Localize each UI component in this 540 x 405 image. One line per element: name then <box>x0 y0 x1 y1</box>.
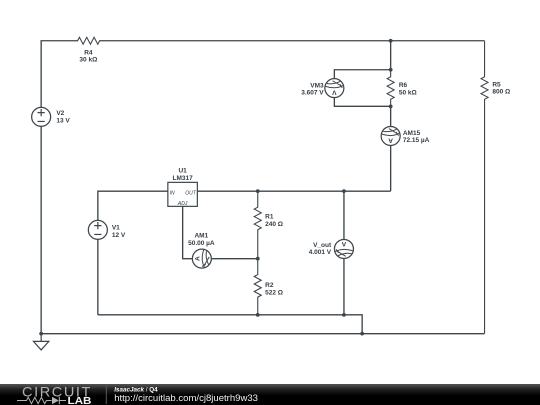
svg-text:13 V: 13 V <box>56 118 70 125</box>
svg-text:30 kΩ: 30 kΩ <box>79 57 97 64</box>
node: junction R2 bottom / bottom rail 1 <box>256 313 260 317</box>
op-amp U1 LM317 regulator box <box>168 182 198 206</box>
resistor R2 522 Ohm <box>254 259 261 315</box>
svg-text:IN: IN <box>170 191 175 197</box>
wire: IN pin to V1 top <box>98 191 168 220</box>
ammeter AM1 50.00 uA <box>192 249 211 268</box>
node: junction VM3 bottom / R6 bottom <box>389 104 393 108</box>
resistor R1 240 Ohm <box>254 191 261 258</box>
node: junction VM3 top / R6 top <box>389 68 393 72</box>
ammeter AM15 72.15 uA <box>381 126 400 145</box>
wire: VM3 top branch <box>334 70 390 79</box>
wire: V_out top lead <box>343 191 345 239</box>
voltage source V2 13 V <box>32 107 51 126</box>
svg-text:OUT: OUT <box>185 191 197 197</box>
wire: V_out bottom lead to bottom rail 1 <box>343 258 345 315</box>
svg-text:V_out: V_out <box>313 242 332 249</box>
svg-text:A: A <box>388 136 393 143</box>
resistor R5 800 Ohm <box>481 41 488 334</box>
logo resistor zigzag and diode <box>17 397 66 404</box>
svg-text:R1: R1 <box>265 214 274 221</box>
wire: AM15 bottom down to OUT rail <box>390 145 392 191</box>
node: junction left rail / ground rail <box>39 332 43 336</box>
svg-text:3.607 V: 3.607 V <box>301 90 324 97</box>
svg-text:U1: U1 <box>178 168 187 175</box>
resistor R6 50 kOhm <box>387 70 394 107</box>
voltmeter V_out 4.001 V <box>334 239 353 258</box>
node: junction top rail / R6 branch <box>389 39 393 43</box>
svg-text:800 Ω: 800 Ω <box>492 88 510 95</box>
wire: R6 branch from top rail down <box>390 41 392 70</box>
svg-text:R2: R2 <box>265 282 274 289</box>
wire: V1 bottom down to bottom rail 1 <box>97 239 99 315</box>
voltage source V1 12 V <box>88 220 107 239</box>
svg-text:240 Ω: 240 Ω <box>265 221 283 228</box>
wire: OUT pin rail to x=390 <box>197 190 390 192</box>
svg-text:V: V <box>342 242 347 249</box>
wire: ground rail <box>41 333 484 335</box>
svg-text:12 V: 12 V <box>112 232 126 239</box>
svg-text:50.00 µA: 50.00 µA <box>188 240 215 247</box>
svg-text:50 kΩ: 50 kΩ <box>399 90 417 97</box>
wire: bottom rail 1 with drop to ground rail <box>98 315 362 334</box>
svg-text:R6: R6 <box>399 82 408 89</box>
wire: ADJ pin down and over to AM1 <box>183 206 193 258</box>
svg-text:A: A <box>194 256 201 261</box>
node: junction AM1 / R1 / R2 <box>256 257 260 261</box>
voltmeter VM3 3.607 V <box>325 79 344 98</box>
wire: left rail from V2 top up and top rail to R4 <box>41 41 78 108</box>
svg-text:522 Ω: 522 Ω <box>265 289 283 296</box>
svg-text:R4: R4 <box>84 49 93 56</box>
wire: R6 bottom to AM15 <box>390 106 392 126</box>
node: junction OUT rail / R1 top <box>256 189 260 193</box>
footer bar background <box>0 384 540 405</box>
wire: VM3 bottom branch <box>334 98 390 107</box>
svg-text:ADJ: ADJ <box>177 201 188 207</box>
resistor R4 <box>78 37 100 44</box>
svg-text:V2: V2 <box>56 110 64 117</box>
svg-text:72.15 µA: 72.15 µA <box>403 137 430 144</box>
svg-text:http://circuitlab.com/cj8juetr: http://circuitlab.com/cj8juetrh9w33 <box>114 393 258 404</box>
svg-text:V: V <box>332 89 337 96</box>
node: junction OUT rail / V_out top <box>342 189 346 193</box>
node: junction V_out bottom / bottom rail 1 <box>342 313 346 317</box>
wire: AM1 right to R1/R2 junction <box>211 258 257 260</box>
footer separator line <box>105 386 107 405</box>
wire: V2 bottom down left rail to ground rail <box>40 126 42 333</box>
svg-text:LAB: LAB <box>68 396 92 405</box>
svg-text:LM317: LM317 <box>173 175 194 182</box>
svg-text:V1: V1 <box>112 225 120 232</box>
svg-text:AM1: AM1 <box>194 233 208 240</box>
svg-text:AM15: AM15 <box>403 130 421 137</box>
svg-text:VM3: VM3 <box>310 83 324 90</box>
svg-text:4.001 V: 4.001 V <box>309 249 332 256</box>
node: junction drop / ground rail <box>360 332 364 336</box>
wire: top rail from R4 to R5 <box>99 40 484 42</box>
ground symbol <box>33 334 48 350</box>
